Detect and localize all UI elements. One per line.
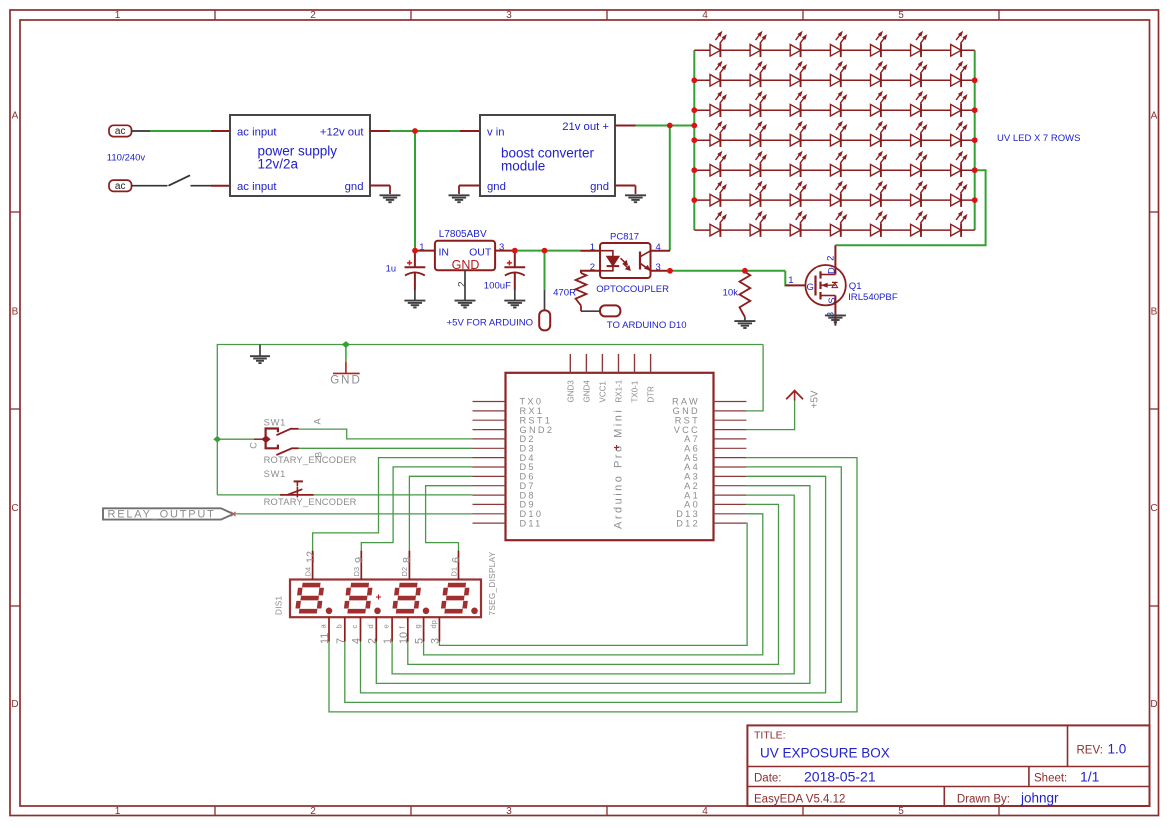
- wire LED row 1: [694, 49, 974, 51]
- svg-text:D: D: [1150, 699, 1157, 710]
- wire D7 net to 7seg pin 6: [426, 486, 473, 552]
- wire +12v down to L7805 IN: [414, 131, 416, 251]
- pin b 7seg bottom stub: [344, 617, 346, 641]
- wire +12v net: [390, 130, 460, 132]
- LED D33: [871, 151, 887, 177]
- ground L7805: [455, 300, 476, 302]
- svg-text:gnd: gnd: [590, 181, 609, 193]
- svg-text:4: 4: [702, 806, 708, 817]
- power supply module U2: [230, 115, 370, 196]
- svg-text:2: 2: [310, 806, 316, 817]
- wire stub power supply gnd pin: [370, 185, 390, 187]
- LED D19: [871, 91, 887, 117]
- wire A4 net to 7seg segment: [345, 467, 842, 703]
- svg-text:RELAY_OUTPUT: RELAY_OUTPUT: [108, 509, 216, 521]
- pin A2 right stub: [714, 485, 747, 487]
- wire D10 net from relay flag: [233, 513, 472, 515]
- pin A0 right stub: [714, 503, 747, 505]
- pin e 7seg bottom stub: [391, 617, 393, 641]
- boost converter module U3: [480, 115, 615, 196]
- svg-text:ac input: ac input: [237, 126, 277, 138]
- svg-text:Drawn By:: Drawn By:: [957, 794, 1010, 806]
- svg-text:D1: D1: [449, 567, 458, 577]
- pin c 7seg bottom stub: [360, 617, 362, 641]
- wire 10k to ground: [744, 317, 746, 321]
- junction L7805 OUT node: [512, 248, 518, 254]
- svg-text:UV LED X 7 ROWS: UV LED X 7 ROWS: [997, 133, 1080, 144]
- svg-text:5: 5: [414, 638, 426, 644]
- svg-text:Arduino Pro Mini: Arduino Pro Mini: [613, 408, 625, 529]
- title block row line 1: [747, 766, 1149, 768]
- 7seg digit 1: [297, 585, 322, 611]
- junction 21v at LED rail: [691, 123, 697, 129]
- svg-text:gnd: gnd: [487, 181, 506, 193]
- title block rev divider: [1067, 725, 1069, 766]
- LED D22: [710, 121, 726, 147]
- svg-text:e: e: [382, 624, 391, 628]
- svg-text:RX1-1: RX1-1: [615, 379, 624, 402]
- wire D4 net to 7seg pin 12: [313, 458, 473, 552]
- LED D27: [911, 121, 927, 147]
- pin D10 left stub: [473, 513, 506, 515]
- wire LED row 6: [694, 199, 974, 201]
- pin RST right stub: [714, 419, 747, 421]
- ground symbol left: [259, 345, 261, 356]
- display DIS1 7SEG_DISPLAY: [290, 580, 481, 618]
- frame column ticks bottom: [214, 806, 216, 816]
- pin RST1 left stub: [473, 419, 506, 421]
- wire D5 net to 7seg pin 9: [361, 467, 472, 552]
- origin cross U1: [614, 447, 619, 449]
- svg-text:1: 1: [115, 806, 121, 817]
- wire PC817 pin3 to gate: [670, 270, 785, 272]
- pin RAW right stub: [714, 401, 747, 403]
- svg-text:1/1: 1/1: [1080, 769, 1100, 785]
- LED D16: [750, 91, 766, 117]
- LED D32: [830, 151, 846, 177]
- svg-text:8: 8: [402, 557, 414, 563]
- capacitor C2 100uF: [504, 251, 525, 308]
- svg-text:OUT: OUT: [469, 246, 492, 258]
- LED D34: [911, 151, 927, 177]
- LED D26: [871, 121, 887, 147]
- svg-text:G: G: [807, 282, 814, 293]
- LED D28: [951, 121, 967, 147]
- LED D42: [951, 181, 967, 207]
- LED D30: [750, 151, 766, 177]
- wire LED row 2: [694, 79, 974, 81]
- LED D45: [790, 211, 806, 237]
- wire LED array right rail: [974, 50, 976, 230]
- wire A1 net to 7seg segment: [392, 495, 794, 674]
- ground power supply: [380, 194, 401, 196]
- LED D43: [710, 211, 726, 237]
- svg-text:2: 2: [825, 256, 836, 261]
- wire +5v to connector: [544, 251, 546, 290]
- svg-text:Sheet:: Sheet:: [1034, 773, 1067, 785]
- LED D49: [951, 211, 967, 237]
- pin D12 right stub: [714, 522, 747, 524]
- pin RX1 left stub: [473, 410, 506, 412]
- wire A2 net to 7seg segment: [376, 486, 810, 684]
- pin A4 right stub: [714, 466, 747, 468]
- wire LED row 4: [694, 139, 974, 141]
- LED D36: [710, 181, 726, 207]
- svg-text:+12v out: +12v out: [320, 126, 365, 138]
- svg-text:12: 12: [305, 551, 317, 563]
- LED D3: [790, 32, 806, 58]
- LED D37: [750, 181, 766, 207]
- svg-text:GND: GND: [330, 374, 362, 386]
- svg-text:1: 1: [115, 10, 121, 21]
- LED D39: [830, 181, 846, 207]
- svg-text:3: 3: [506, 10, 512, 21]
- svg-text:SW1: SW1: [264, 417, 287, 427]
- svg-text:3: 3: [506, 806, 512, 817]
- pin TX0-1 top stub: [634, 354, 636, 373]
- svg-text:D3: D3: [352, 567, 361, 577]
- svg-text:ROTARY_ENCODER: ROTARY_ENCODER: [264, 497, 357, 507]
- svg-text:12v/2a: 12v/2a: [258, 156, 299, 171]
- svg-text:D11: D11: [520, 518, 543, 528]
- PC817 phototransistor: [640, 251, 651, 271]
- svg-text:OPTOCOUPLER: OPTOCOUPLER: [596, 284, 669, 295]
- wire D6 net to 7seg pin 8: [409, 476, 472, 551]
- LED D31: [790, 151, 806, 177]
- svg-text:+5V FOR ARDUINO: +5V FOR ARDUINO: [447, 317, 534, 328]
- LED D46: [830, 211, 846, 237]
- svg-text:9: 9: [354, 557, 366, 563]
- LED D5: [871, 32, 887, 58]
- svg-text:5: 5: [898, 10, 904, 21]
- LED D17: [790, 91, 806, 117]
- svg-text:TX0-1: TX0-1: [631, 380, 640, 402]
- pin a 7seg bottom stub: [328, 617, 330, 641]
- svg-text:2018-05-21: 2018-05-21: [804, 769, 876, 785]
- svg-text:Q1: Q1: [849, 281, 862, 292]
- svg-text:c: c: [350, 625, 359, 629]
- svg-text:D2: D2: [400, 567, 409, 577]
- svg-text:470R: 470R: [553, 287, 576, 298]
- wire stub gate pin: [785, 284, 805, 286]
- wire gate jog: [785, 271, 790, 286]
- ground Q1 source: [825, 314, 846, 316]
- net label GND: [330, 341, 362, 386]
- LED D35: [951, 151, 967, 177]
- wire D13 net to 7seg segment: [424, 514, 763, 655]
- port ac2: [109, 180, 132, 191]
- pin D7 left stub: [473, 485, 506, 487]
- svg-text:D12: D12: [676, 518, 700, 528]
- svg-text:1.0: 1.0: [1108, 742, 1127, 757]
- pin d 7seg bottom stub: [375, 617, 377, 641]
- resistor R2 10k: [740, 272, 751, 317]
- LED D44: [750, 211, 766, 237]
- svg-text:Date:: Date:: [754, 773, 782, 785]
- pin D9 left stub: [473, 503, 506, 505]
- wire drain: [834, 245, 836, 274]
- pin RX1-1 top stub: [618, 354, 620, 373]
- svg-text:D: D: [11, 699, 18, 710]
- svg-text:4: 4: [351, 638, 363, 644]
- wire A5 net to 7seg segment: [329, 458, 857, 712]
- svg-text:VCC1: VCC1: [598, 381, 607, 403]
- junction encoder common node: [213, 436, 221, 443]
- connector +5V for arduino: [539, 310, 550, 330]
- LED D13: [911, 62, 927, 88]
- pin f 7seg bottom stub: [407, 617, 409, 641]
- svg-text:TITLE:: TITLE:: [754, 730, 786, 742]
- svg-text:DTR: DTR: [647, 386, 656, 403]
- svg-text:2: 2: [310, 10, 316, 21]
- junction +5v node: [542, 248, 548, 254]
- svg-text:ac: ac: [115, 181, 126, 192]
- power flag +5V: [786, 390, 820, 408]
- connector to arduino D10: [600, 305, 620, 316]
- wire ac1 to power supply: [150, 130, 211, 132]
- wire 21v down to PC817 pin4: [669, 126, 671, 251]
- pin VCC1 top stub: [601, 354, 603, 373]
- wire stub boost v in pin: [460, 130, 481, 132]
- svg-text:+5V: +5V: [810, 390, 821, 408]
- LED D47: [871, 211, 887, 237]
- svg-text:ac: ac: [115, 126, 126, 137]
- 7seg digit 3: [394, 585, 419, 611]
- svg-text:d: d: [366, 624, 375, 628]
- ground boost left: [449, 194, 470, 196]
- svg-text:21v out +: 21v out +: [562, 121, 609, 133]
- svg-text:UV EXPOSURE BOX: UV EXPOSURE BOX: [760, 745, 890, 760]
- rotary encoder SW1a: [248, 417, 356, 465]
- net flag RELAY_OUTPUT: [103, 508, 236, 520]
- switch S1 ac line: [150, 185, 168, 187]
- svg-text:REV:: REV:: [1077, 745, 1103, 757]
- LED D14: [951, 62, 967, 88]
- pin D6 left stub: [473, 475, 506, 477]
- svg-text:EasyEDA V5.4.12: EasyEDA V5.4.12: [754, 794, 845, 806]
- wire stub power supply ac input pin 1: [211, 130, 231, 132]
- LED D15: [710, 91, 726, 117]
- svg-text:GND3: GND3: [566, 380, 575, 403]
- LED D40: [871, 181, 887, 207]
- LED D8: [710, 62, 726, 88]
- svg-text:5: 5: [898, 806, 904, 817]
- pin D4 left stub: [473, 457, 506, 459]
- frame column ticks top: [214, 10, 216, 20]
- pin GND3 top stub: [569, 354, 571, 373]
- wire +5v net: [515, 250, 581, 252]
- transistor Q1 IRL540PBF: [805, 265, 845, 305]
- pin D2 7seg top stub: [408, 551, 410, 580]
- port ac1: [109, 125, 132, 136]
- LED D21: [951, 91, 967, 117]
- svg-text:B: B: [12, 306, 19, 317]
- ground boost right: [625, 194, 646, 196]
- pin VCC right stub: [714, 429, 747, 431]
- junction PC817 pin3 node: [667, 268, 673, 274]
- pin dp 7seg bottom stub: [438, 617, 440, 641]
- svg-text:C: C: [248, 442, 258, 449]
- svg-text:1: 1: [382, 638, 394, 644]
- pin D3 left stub: [473, 447, 506, 449]
- junctions LED right rail: [972, 77, 978, 83]
- title block drawnby divider: [943, 787, 945, 807]
- frame row ticks left: [10, 211, 20, 213]
- 7seg digit 2: [346, 585, 371, 611]
- pin D2 left stub: [473, 438, 506, 440]
- pin D11 left stub: [473, 522, 506, 524]
- svg-text:1: 1: [788, 275, 793, 286]
- pin GND4 top stub: [585, 354, 587, 373]
- svg-text:1u: 1u: [386, 264, 396, 274]
- LED D4: [830, 32, 846, 58]
- svg-text:A: A: [1151, 111, 1158, 122]
- LED D11: [830, 62, 846, 88]
- title block outline: [747, 725, 1149, 806]
- wire A3 net to 7seg segment: [361, 476, 826, 693]
- svg-text:2: 2: [366, 638, 378, 644]
- LED D24: [790, 121, 806, 147]
- wire LED row 7: [694, 229, 974, 231]
- pin TX0 left stub: [473, 401, 506, 403]
- wire LED return to MOSFET drain: [835, 170, 985, 245]
- svg-text:6: 6: [451, 557, 463, 563]
- LED D7: [951, 32, 967, 58]
- pin g 7seg bottom stub: [423, 617, 425, 641]
- pin A7 right stub: [714, 438, 747, 440]
- LED D20: [911, 91, 927, 117]
- junction 21v node to optocoupler: [667, 123, 673, 129]
- svg-text:b: b: [334, 624, 343, 628]
- svg-text:A: A: [313, 418, 323, 424]
- wire stub boost 21v out pin: [615, 125, 636, 127]
- wire LED row 3: [694, 109, 974, 111]
- svg-text:C: C: [1150, 503, 1157, 514]
- LED D2: [750, 32, 766, 58]
- svg-text:gnd: gnd: [345, 181, 364, 193]
- svg-text:DIS1: DIS1: [275, 595, 284, 615]
- pin A5 right stub: [714, 457, 747, 459]
- svg-text:11: 11: [319, 633, 331, 644]
- wire 21v net to LED array: [636, 125, 695, 127]
- svg-text:johngr: johngr: [1020, 791, 1059, 806]
- svg-text:7: 7: [335, 638, 347, 644]
- junction +12v node: [412, 128, 418, 134]
- IC U1 Arduino Pro Mini: [506, 373, 714, 540]
- pin D4 7seg top stub: [312, 551, 314, 580]
- LED D1: [710, 32, 726, 58]
- svg-text:100uF: 100uF: [484, 281, 511, 292]
- wire 470R to connector: [580, 306, 582, 312]
- wire ac1 pin stub: [132, 130, 151, 132]
- optocoupler U5 PC817: [600, 243, 651, 278]
- svg-text:4: 4: [702, 10, 708, 21]
- wire LED row 5: [694, 169, 974, 171]
- svg-text:IRL540PBF: IRL540PBF: [848, 292, 898, 303]
- LED D41: [911, 181, 927, 207]
- pin A3 right stub: [714, 475, 747, 477]
- pin DTR top stub: [650, 354, 652, 373]
- pin GND2 left stub: [473, 429, 506, 431]
- LED D10: [790, 62, 806, 88]
- svg-text:110/240v: 110/240v: [107, 152, 146, 163]
- pin GND right stub: [714, 410, 747, 412]
- wire GND pin to rail: [746, 345, 763, 411]
- svg-text:10k: 10k: [723, 288, 739, 299]
- svg-text:PC817: PC817: [610, 231, 639, 242]
- capacitor C1 1u: [404, 251, 425, 308]
- wire LED array left rail: [693, 50, 695, 230]
- wire D8 net from encoder 2: [314, 494, 473, 496]
- wire A0 net to 7seg segment: [408, 504, 779, 664]
- svg-text:D: D: [826, 267, 836, 274]
- LED D23: [750, 121, 766, 147]
- junction L7805 IN node: [412, 248, 418, 254]
- wire VCC pin to +5V flag: [746, 401, 794, 430]
- LED D9: [750, 62, 766, 88]
- pin D8 left stub: [473, 494, 506, 496]
- svg-text:dp: dp: [429, 620, 438, 628]
- pin A1 right stub: [714, 494, 747, 496]
- LED D6: [911, 32, 927, 58]
- origin cross DIS1: [376, 596, 381, 598]
- LED D12: [871, 62, 887, 88]
- svg-text:SW1: SW1: [264, 469, 287, 479]
- svg-text:g: g: [413, 624, 422, 628]
- wire source: [834, 296, 836, 326]
- PC817 internal LED: [600, 251, 619, 271]
- svg-text:C: C: [11, 503, 18, 514]
- title block row line 2: [747, 786, 1149, 788]
- svg-text:D4: D4: [303, 567, 312, 577]
- LED D38: [790, 181, 806, 207]
- svg-text:7SEG_DISPLAY: 7SEG_DISPLAY: [488, 551, 497, 615]
- svg-text:A: A: [12, 111, 19, 122]
- svg-text:TO ARDUINO D10: TO ARDUINO D10: [607, 320, 687, 331]
- svg-text:IN: IN: [439, 246, 450, 258]
- wire gnd rail top: [217, 345, 763, 495]
- svg-text:3: 3: [429, 638, 441, 644]
- rotary encoder SW1b push switch: [217, 469, 356, 507]
- pin A6 right stub: [714, 447, 747, 449]
- wire D3 net from encoder B: [299, 447, 473, 449]
- junctions LED left rail: [691, 77, 697, 83]
- LED D29: [710, 151, 726, 177]
- svg-text:GND4: GND4: [582, 380, 591, 403]
- svg-text:10: 10: [398, 632, 410, 644]
- pin D3 7seg top stub: [360, 551, 362, 580]
- LED D25: [830, 121, 846, 147]
- wire stub boost gnd left pin: [459, 185, 480, 187]
- pin D5 left stub: [473, 466, 506, 468]
- wire D12 net to 7seg segment: [439, 523, 747, 645]
- resistor R1 470R: [576, 273, 587, 306]
- frame row ticks right: [1150, 211, 1159, 213]
- svg-text:ROTARY_ENCODER: ROTARY_ENCODER: [264, 455, 357, 465]
- LED D18: [830, 91, 846, 117]
- svg-text:2: 2: [457, 281, 468, 287]
- regulator U4 L7805ABV: [435, 241, 495, 271]
- title block sheet divider: [1028, 767, 1030, 787]
- junction gate pulldown node: [742, 268, 748, 274]
- svg-text:B: B: [1151, 306, 1158, 317]
- PC817 light arrows: [621, 258, 631, 270]
- svg-text:ac input: ac input: [237, 181, 277, 193]
- LED D48: [911, 211, 927, 237]
- wire D2 net from encoder A: [299, 429, 473, 439]
- svg-text:v in: v in: [487, 126, 505, 138]
- wire stub +12v out pin: [370, 130, 390, 132]
